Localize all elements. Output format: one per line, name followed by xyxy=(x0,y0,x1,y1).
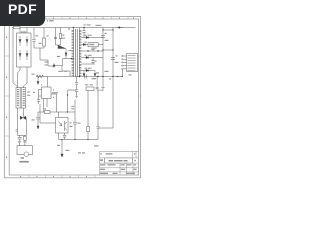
junction dot T1 pin xyxy=(73,27,74,28)
capacitor CX1 xyxy=(32,28,35,49)
ground arrow 2 xyxy=(61,140,63,158)
diode D6 xyxy=(86,36,89,38)
diode D10 xyxy=(86,69,89,71)
ground arrow 3 xyxy=(37,126,39,129)
zone ticks bottom xyxy=(29,175,95,178)
capacitor small on left rail xyxy=(16,130,18,131)
border frame outer xyxy=(4,16,140,177)
capacitor C12 xyxy=(97,90,100,139)
wire: bottom-left branch xyxy=(18,118,27,136)
wire: connector to bus xyxy=(121,69,123,76)
junction dots secondary xyxy=(83,27,84,28)
optocoupler U3 xyxy=(56,118,69,134)
capacitor C14 xyxy=(63,135,67,137)
capacitor C9 on bus xyxy=(85,75,87,79)
IC U1 xyxy=(42,87,52,99)
zener arrow up xyxy=(53,64,55,68)
capacitor C4 xyxy=(82,28,85,38)
snubber loop R2/C2 xyxy=(56,28,61,46)
varistor RV1 xyxy=(24,136,27,140)
transistor Q1 drain path xyxy=(54,59,75,77)
capacitor CX2 xyxy=(18,135,22,145)
transformer T1 core xyxy=(76,29,78,77)
capacitor C11 xyxy=(73,100,77,140)
ground arrow 1 xyxy=(37,77,39,85)
diode D3 xyxy=(26,36,28,46)
zone ticks right xyxy=(139,56,141,136)
wire: output columns xyxy=(103,28,113,77)
capacitor C6 xyxy=(91,58,94,65)
resistor R5 xyxy=(45,111,51,114)
zone letters left xyxy=(6,37,7,39)
label under bus xyxy=(92,78,97,79)
wire: regulator nets xyxy=(96,77,103,91)
reference box U2 xyxy=(86,87,94,91)
border frame inner xyxy=(9,19,138,175)
wire: mid bus xyxy=(36,76,122,78)
wire: secondary rails xyxy=(81,38,103,71)
wire: link xyxy=(34,47,44,49)
capacitor C5 xyxy=(91,47,94,51)
wire: choke down xyxy=(18,108,24,135)
wire: bottom rail xyxy=(59,139,99,141)
ground stub xyxy=(101,77,104,91)
capacitor C8 xyxy=(111,58,115,60)
wire: top bus xyxy=(12,27,136,29)
wire: transformer pins xyxy=(73,28,79,77)
zone ticks left xyxy=(4,56,9,136)
wire: left rail xyxy=(13,28,18,87)
wire: right descender xyxy=(98,77,113,129)
resistor R1 xyxy=(43,28,45,39)
zone numbers xyxy=(20,17,134,177)
wire: left rail into bridge xyxy=(20,28,27,34)
regulator box U4 xyxy=(88,43,98,47)
resistor R3 zigzag xyxy=(36,75,43,78)
capacitor C3 xyxy=(37,96,40,104)
capacitor chain C15/C16 xyxy=(75,77,78,98)
bridge rectifier D1-D4 box xyxy=(17,33,32,67)
fuse F1 xyxy=(14,26,21,29)
transformer T1 primary winding xyxy=(72,30,74,76)
connector CN1 pins xyxy=(123,56,127,69)
junction dots xyxy=(97,76,98,77)
diode D5 xyxy=(58,45,67,59)
wire: gate network xyxy=(40,48,54,66)
wire: feedback to opto xyxy=(68,90,77,112)
arrow down sec1 xyxy=(83,71,85,77)
common-mode choke L1 xyxy=(16,88,26,109)
capacitor C7 xyxy=(101,36,105,38)
diode D7 xyxy=(83,43,85,45)
capacitor C13 xyxy=(36,112,44,126)
diode D2 xyxy=(19,50,21,60)
net arrow xyxy=(118,27,124,29)
diode D1 xyxy=(19,36,21,46)
wire: bridge to choke xyxy=(18,67,28,88)
net arrow mid bus xyxy=(116,76,118,78)
wire: opto pins xyxy=(59,112,65,140)
zone ticks top xyxy=(29,16,128,19)
wire: feedback rail xyxy=(44,111,75,113)
resistor R10 xyxy=(87,91,89,127)
connector CN1 xyxy=(127,54,138,72)
transformer T1 secondary winding xyxy=(78,30,80,76)
wire: U1 nets xyxy=(40,77,57,124)
diode D8 xyxy=(86,56,89,58)
label bars gate xyxy=(45,61,49,62)
AC plug B1 xyxy=(17,146,32,155)
PDF badge xyxy=(0,0,45,26)
label scatter xyxy=(21,24,119,109)
title block xyxy=(100,151,139,175)
diode D4 xyxy=(26,50,28,60)
diode D9 bidirectional xyxy=(20,116,25,119)
arrow down sec2 xyxy=(94,71,96,77)
